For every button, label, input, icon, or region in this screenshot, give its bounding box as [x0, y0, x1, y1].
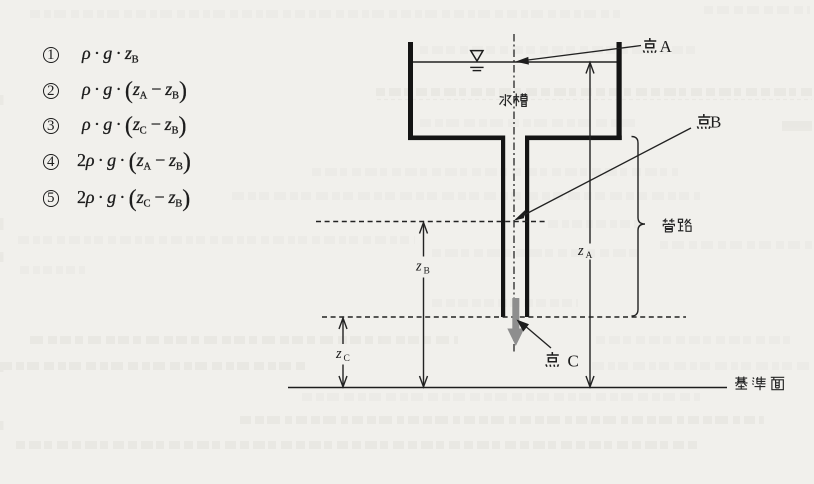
free-surface symbol (nabla over double line) [470, 51, 483, 71]
pipe left wall [501, 136, 505, 318]
option row 4: 2 rho g (zA - zB) [0, 0, 1, 1]
water surface line [412, 61, 617, 63]
tank bottom right segment [525, 136, 622, 141]
centerline (dash-dot axis of tank and pipe) [513, 34, 515, 352]
label 管路 (pipe run) [663, 219, 691, 232]
label zA [577, 243, 593, 261]
leader arrow to point A (water surface on axis) [516, 46, 642, 65]
dimension zC: outlet level to datum [339, 318, 347, 387]
option row 3: rho g (zC - zB) [0, 0, 1, 1]
pipe-run curly bracket [632, 137, 646, 317]
svg-text:z: z [335, 346, 342, 362]
label zB [415, 259, 430, 277]
leader arrow to point C (pipe exit on axis) [517, 320, 552, 349]
option row 2: rho g (zA - zB) [0, 0, 1, 1]
leader arrow to point B (inside pipe on axis at B level) [514, 128, 691, 221]
label 点A [643, 38, 656, 53]
label 基準面 (datum plane) [735, 376, 784, 390]
option row 1: rho g zB [0, 0, 1, 1]
tank right wall [617, 42, 622, 140]
grey outflow jet arrow at pipe exit [507, 298, 524, 346]
tank bottom left segment [408, 136, 505, 141]
label zC [335, 346, 350, 364]
upper dashed level line (point B elevation) [316, 221, 545, 223]
svg-text:z: z [415, 259, 422, 275]
svg-text:B: B [710, 113, 721, 132]
dimension zA: vertical line with arrows, water surface to datum [586, 63, 594, 387]
svg-text:A: A [586, 251, 593, 261]
svg-text:z: z [577, 243, 584, 259]
dimension zB: dashed B-level to datum [420, 223, 428, 387]
svg-text:C: C [568, 352, 579, 371]
svg-text:C: C [344, 354, 350, 364]
svg-text:B: B [424, 267, 430, 277]
label 点B [697, 114, 710, 129]
option row 5: 2 rho g (zC - zB) [0, 0, 1, 1]
pipe right wall [525, 136, 529, 318]
tank left wall [408, 42, 413, 140]
lower dashed level line (pipe outlet elevation) [322, 316, 686, 318]
label 水槽 (tank) [500, 93, 528, 106]
svg-text:A: A [660, 37, 673, 56]
ground / datum line [288, 387, 727, 389]
label 点C [546, 352, 559, 367]
